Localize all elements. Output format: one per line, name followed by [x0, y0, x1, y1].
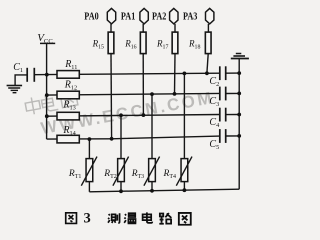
wire: PA0 lead: [110, 24, 112, 32]
wire: row node 1: [47, 73, 220, 74]
测: [108, 213, 120, 223]
图: [66, 213, 77, 224]
node: row3 / R72 junction: [119, 113, 123, 117]
node: row2 / PA2 column junction: [173, 92, 177, 96]
capacitor C4: [209, 108, 239, 130]
wire: row node 3: [47, 115, 220, 117]
svg-text:3: 3: [84, 210, 91, 226]
resistor R14: [57, 125, 79, 143]
node: row2 / R73 junction: [150, 92, 154, 96]
capacitor C5: [209, 129, 239, 151]
capacitor C1: [13, 62, 46, 85]
caption: 图 3 测温电路图: [66, 212, 191, 224]
node: row1 / R74 junction: [183, 72, 187, 76]
路: [159, 213, 171, 224]
node: row2 / right rail junction: [237, 92, 241, 96]
wire: PA3 column down to node 1: [207, 54, 208, 74]
node: row4 / R71 junction: [88, 137, 92, 141]
wire: row node 2: [47, 93, 220, 95]
connector pin PA1: [121, 8, 148, 24]
thermistor R71: [68, 139, 97, 192]
capacitor C3: [209, 87, 239, 109]
svg-text:PA3: PA3: [183, 10, 198, 22]
wire: PA1 lead: [142, 24, 144, 32]
svg-text:PA0: PA0: [84, 10, 99, 22]
resistor R17: [156, 32, 178, 54]
svg-text:PA1: PA1: [121, 10, 135, 22]
ground (top right): [231, 54, 249, 59]
watermark 中电网 WWW.ECCN.COM: [24, 65, 215, 140]
wire: row node 4: [47, 136, 220, 139]
capacitor C2: [209, 66, 239, 88]
node: row1 / right rail junction: [237, 71, 241, 75]
ground (left, below C1): [7, 86, 23, 93]
node: Vcc rail / C1 / R11 junction: [45, 73, 49, 77]
wire: PA0 column down to node 4: [110, 54, 113, 139]
node: row3 / PA1 column junction: [142, 113, 146, 117]
node: row4 / PA0 column junction: [110, 137, 114, 141]
wire: PA2 lead: [174, 24, 176, 32]
node: row1 / PA3 column junction: [205, 71, 209, 75]
电: [143, 212, 153, 222]
wire: PA3 lead: [207, 24, 209, 32]
wire: Vcc left vertical rail: [46, 43, 48, 139]
node: Vcc rail / R12 junction: [45, 93, 49, 97]
node: row3 / right rail junction: [237, 113, 241, 117]
node: bus / R74 junction: [183, 188, 187, 192]
resistor R11: [57, 59, 79, 78]
resistor R18: [188, 32, 211, 54]
node: bus / R73 junction: [150, 189, 154, 193]
thermistor R74: [163, 73, 193, 190]
wire: bottom ground bus: [89, 189, 239, 192]
Vcc supply terminal: [37, 32, 55, 45]
node: bus / R72 junction: [119, 189, 123, 193]
图: [179, 213, 191, 225]
connector pin PA2: [152, 8, 178, 24]
wire: PA1 column down to node 3: [142, 54, 144, 116]
resistor R15: [92, 32, 114, 54]
node: Vcc rail / R13 junction: [45, 114, 49, 118]
thermistor R73: [131, 94, 160, 191]
node: row4 / right rail junction: [237, 134, 241, 138]
svg-text:PA2: PA2: [152, 10, 167, 22]
resistor R13: [57, 99, 79, 120]
温: [124, 213, 136, 223]
wire: PA2 column down to node 2: [174, 54, 177, 94]
resistor R16: [124, 32, 146, 54]
resistor R12: [57, 80, 79, 99]
thermistor R72: [103, 115, 128, 191]
connector pin PA3: [183, 8, 214, 24]
connector pin PA0: [84, 8, 115, 24]
wire: right ground rail: [238, 59, 240, 190]
